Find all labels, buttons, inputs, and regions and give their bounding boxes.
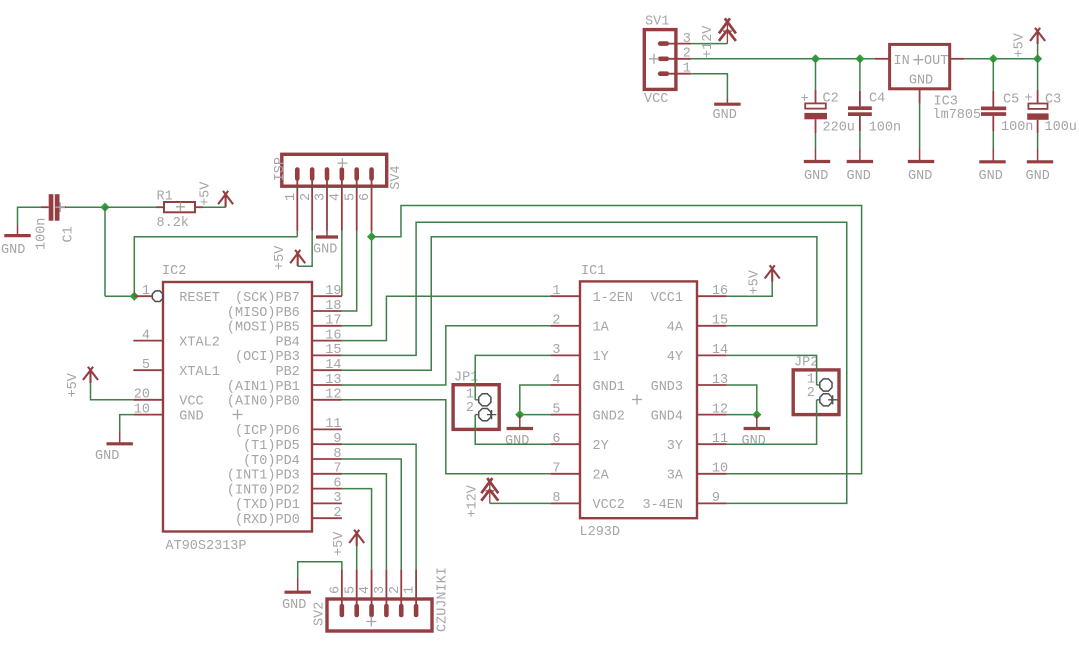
svg-text:JP2: JP2 xyxy=(794,356,818,371)
svg-text:4A: 4A xyxy=(667,321,684,336)
svg-text:3: 3 xyxy=(552,343,560,358)
wire +12V to IC1 VCC2 xyxy=(490,502,551,504)
svg-text:4: 4 xyxy=(552,373,560,388)
IC1 pin 9 3-4EN xyxy=(697,502,727,504)
svg-text:GND: GND xyxy=(1,243,25,258)
IC2 pin 16 PB4 xyxy=(312,340,342,342)
svg-text:(MOSI)PB5: (MOSI)PB5 xyxy=(227,321,300,336)
svg-text:9: 9 xyxy=(712,491,720,506)
svg-text:100n: 100n xyxy=(35,218,50,250)
wire IC1 GND3/GND4 junction xyxy=(727,385,757,415)
supply +5V (top right) xyxy=(1030,28,1045,44)
wire ISP.4 to IC2 SCK xyxy=(341,231,343,296)
svg-text:C1: C1 xyxy=(62,226,77,242)
connector SV4 ISP xyxy=(282,154,387,186)
IC2 pin 11 (ICP)PD6 xyxy=(312,428,342,430)
svg-text:SV1: SV1 xyxy=(645,15,669,30)
svg-text:15: 15 xyxy=(325,343,341,358)
IC U-IC2 AT90S2313P xyxy=(163,282,312,532)
svg-text:+: + xyxy=(1025,92,1033,107)
SV4 pin 3 stub xyxy=(326,174,328,231)
IC1 pin 6 2Y xyxy=(550,443,580,445)
wire SV1.3 to +12V xyxy=(691,43,728,45)
svg-text:6: 6 xyxy=(358,193,373,201)
svg-text:(INT0)PD2: (INT0)PD2 xyxy=(227,483,300,498)
svg-text:C4: C4 xyxy=(869,92,885,107)
svg-text:11: 11 xyxy=(325,417,341,432)
IC2 pin 13 (AIN1)PB1 xyxy=(312,384,342,386)
wire net PD5 to SV2.1 xyxy=(342,444,416,569)
svg-text:100n: 100n xyxy=(1001,120,1033,135)
IC2 pin 8 (T0)PD4 xyxy=(312,458,342,460)
svg-text:5: 5 xyxy=(142,358,150,373)
svg-text:C2: C2 xyxy=(823,92,839,107)
wire net PB0 to IC1 2A xyxy=(342,400,550,474)
supply +12V (IC1) xyxy=(481,478,498,493)
svg-text:17: 17 xyxy=(325,314,341,329)
svg-text:GND: GND xyxy=(713,108,737,123)
svg-text:IN: IN xyxy=(894,54,910,69)
IC2 pin 2 (RXD)PD0 xyxy=(312,517,342,519)
IC1 pin 3 1Y xyxy=(550,354,580,356)
node junction C4 rail xyxy=(855,54,864,63)
wire VCC pin20 to +5V xyxy=(91,383,134,400)
svg-text:3-4EN: 3-4EN xyxy=(642,498,683,513)
ground GND (ISP.3) xyxy=(326,231,328,237)
svg-text:RESET: RESET xyxy=(179,291,220,306)
svg-text:XTAL1: XTAL1 xyxy=(179,365,220,380)
wire net PB3 to IC1 3-4EN xyxy=(342,222,847,503)
wire IC1 GND1/GND2 junction xyxy=(520,385,551,415)
svg-text:GND: GND xyxy=(179,409,203,424)
node junction MOSI xyxy=(367,232,376,241)
svg-text:GND: GND xyxy=(909,74,933,89)
svg-text:GND: GND xyxy=(95,449,119,464)
svg-text:7: 7 xyxy=(333,462,341,477)
wire SV1.1 to GND xyxy=(691,74,728,99)
svg-text:4: 4 xyxy=(328,193,343,201)
IC1 pin 10 3A xyxy=(697,473,727,475)
svg-text:2: 2 xyxy=(807,386,815,401)
svg-text:1: 1 xyxy=(552,284,560,299)
svg-text:(MISO)PB6: (MISO)PB6 xyxy=(227,306,300,321)
svg-text:(SCK)PB7: (SCK)PB7 xyxy=(235,291,300,306)
wire net PD2 to SV2.4 xyxy=(342,489,372,570)
svg-text:GND2: GND2 xyxy=(593,409,625,424)
svg-text:1: 1 xyxy=(142,284,150,299)
SV2 pin 2 stub xyxy=(400,569,402,610)
IC2 pin 4 XTAL2 xyxy=(133,340,163,342)
svg-text:(T1)PD5: (T1)PD5 xyxy=(243,439,300,454)
svg-text:PB2: PB2 xyxy=(275,365,299,380)
svg-text:4: 4 xyxy=(142,328,150,343)
svg-text:12: 12 xyxy=(325,388,341,403)
JP1 pin 2 xyxy=(475,414,478,416)
IC2 pin 15 (OCI)PB3 xyxy=(312,354,342,356)
svg-text:AT90S2313P: AT90S2313P xyxy=(166,539,247,554)
IC1 pin 16 VCC1 xyxy=(697,295,727,297)
svg-text:2: 2 xyxy=(333,506,341,521)
ground GND (JP2 side) xyxy=(756,415,758,429)
svg-text:1A: 1A xyxy=(593,321,610,336)
IC1 pin 5 GND2 xyxy=(550,414,580,416)
svg-text:(T0)PD4: (T0)PD4 xyxy=(243,454,300,469)
svg-text:9: 9 xyxy=(333,432,341,447)
svg-text:2Y: 2Y xyxy=(593,439,609,454)
svg-text:4Y: 4Y xyxy=(667,350,683,365)
svg-text:1: 1 xyxy=(284,193,299,201)
IC1 pin 2 1A xyxy=(550,325,580,327)
svg-text:8.2k: 8.2k xyxy=(157,216,189,231)
svg-text:C5: C5 xyxy=(1003,93,1019,108)
wire RESET net to IC2 xyxy=(105,295,134,297)
IC1 pin 12 GND4 xyxy=(697,414,727,416)
SV4 pin 4 stub xyxy=(341,174,343,231)
wire IC1 VCC1 to +5V xyxy=(727,282,773,297)
svg-text:VCC1: VCC1 xyxy=(651,291,683,306)
IC1 pin 14 4Y xyxy=(697,354,727,356)
svg-text:+: + xyxy=(801,92,809,107)
capacitor C4 100n xyxy=(859,59,861,91)
svg-text:+5V: +5V xyxy=(199,181,214,206)
svg-text:18: 18 xyxy=(325,299,341,314)
IC2 pin 12 (AIN0)PB0 xyxy=(312,399,342,401)
svg-text:(AIN0)PB0: (AIN0)PB0 xyxy=(227,395,300,410)
capacitor C5 100n xyxy=(992,59,994,91)
IC2 pin 1 RESET bubble xyxy=(134,295,152,297)
JP1 pin 1 xyxy=(475,399,478,401)
IC2 pin 5 XTAL1 xyxy=(133,369,163,371)
svg-text:11: 11 xyxy=(712,432,728,447)
svg-text:2A: 2A xyxy=(593,469,610,484)
node junction RESET xyxy=(130,292,139,301)
svg-text:6: 6 xyxy=(552,432,560,447)
jumper JP1 xyxy=(453,385,499,430)
supply +12V (top) xyxy=(719,18,736,33)
IC2 pin 17 (MOSI)PB5 xyxy=(312,325,342,327)
svg-text:(OCI)PB3: (OCI)PB3 xyxy=(235,350,300,365)
SV4 pin 2 stub xyxy=(311,174,313,231)
ground GND (IC3) xyxy=(919,148,921,162)
wire IC3 GND down xyxy=(919,89,921,104)
svg-text:2: 2 xyxy=(388,586,403,594)
wire R1 to +5V xyxy=(203,206,226,208)
IC2 pin 18 (MISO)PB6 xyxy=(312,310,342,312)
connector SV1 xyxy=(644,30,676,90)
wire net PB2 to IC1 4A xyxy=(342,237,817,371)
SV4 pin 6 stub xyxy=(371,174,373,231)
node junction C1/R1/RESET xyxy=(100,203,109,212)
IC1 pin 4 GND1 xyxy=(550,384,580,386)
svg-text:lm7805: lm7805 xyxy=(933,108,982,123)
jumper JP2 xyxy=(793,370,839,415)
svg-text:C3: C3 xyxy=(1045,93,1061,108)
svg-text:(TXD)PD1: (TXD)PD1 xyxy=(235,498,300,513)
svg-text:PB4: PB4 xyxy=(275,335,299,350)
supply +5V (IC1) xyxy=(765,265,780,281)
svg-text:8: 8 xyxy=(333,447,341,462)
svg-text:GND: GND xyxy=(804,169,828,184)
svg-text:20: 20 xyxy=(134,388,150,403)
svg-text:14: 14 xyxy=(712,343,728,358)
wire JP1.2 to IC1 2Y xyxy=(475,415,550,445)
ground GND (SV2) xyxy=(297,579,299,593)
IC1 pin 11 3Y xyxy=(697,443,727,445)
capacitor C1 100n xyxy=(41,206,49,208)
svg-text:+5V: +5V xyxy=(273,245,288,270)
svg-text:R1: R1 xyxy=(157,190,173,205)
svg-text:GND: GND xyxy=(1026,169,1050,184)
svg-text:GND: GND xyxy=(505,434,529,449)
svg-text:CZUJNIKI: CZUJNIKI xyxy=(436,567,451,632)
svg-text:1Y: 1Y xyxy=(593,350,609,365)
svg-text:2: 2 xyxy=(466,401,474,416)
JP2 pin 1 xyxy=(817,384,820,386)
svg-text:GND4: GND4 xyxy=(651,409,683,424)
SV4 pin 1 stub xyxy=(296,174,298,231)
SV4 pin 5 stub xyxy=(356,174,358,231)
IC1 pin 7 2A xyxy=(550,473,580,475)
svg-text:VCC2: VCC2 xyxy=(593,498,625,513)
wire SV2.6 to GND xyxy=(298,562,342,579)
ground GND (C1) xyxy=(4,234,30,237)
svg-text:16: 16 xyxy=(712,284,728,299)
svg-text:+12V: +12V xyxy=(701,25,716,58)
wire net PB4 to IC1 1-2EN xyxy=(342,296,550,340)
svg-text:10: 10 xyxy=(134,402,150,417)
SV2 pin 4 stub xyxy=(371,569,373,610)
IC2 pin 20 VCC xyxy=(133,399,163,401)
svg-text:8: 8 xyxy=(552,491,560,506)
svg-text:GND: GND xyxy=(742,434,766,449)
wire ISP.1 to RESET net xyxy=(296,231,298,237)
IC2 pin 3 (TXD)PD1 xyxy=(312,502,342,504)
svg-text:1-2EN: 1-2EN xyxy=(593,291,634,306)
supply +5V (ISP) xyxy=(290,250,305,266)
JP2 pin 2 xyxy=(817,399,820,401)
wire ISP.5 to IC2 MISO xyxy=(342,231,357,311)
svg-text:2: 2 xyxy=(683,47,691,62)
wire SV2.5 to +5V xyxy=(356,546,358,569)
svg-text:3: 3 xyxy=(683,32,691,47)
svg-text:+5V: +5V xyxy=(332,531,347,556)
wire net PD3 to SV2.3 xyxy=(342,474,387,570)
IC U-IC1 L293D xyxy=(580,281,697,518)
svg-text:GND: GND xyxy=(979,169,1003,184)
regulator IC3 lm7805 xyxy=(875,58,890,60)
svg-text:12: 12 xyxy=(712,402,728,417)
svg-text:GND1: GND1 xyxy=(593,380,625,395)
svg-text:4: 4 xyxy=(358,586,373,594)
supply +5V (SV2) xyxy=(349,530,364,546)
svg-text:220u: 220u xyxy=(823,121,855,136)
SV2 pin 3 stub xyxy=(385,569,387,610)
svg-text:3: 3 xyxy=(314,193,329,201)
node junction C2 rail xyxy=(811,54,820,63)
IC2 pin 14 PB2 xyxy=(312,369,342,371)
wire net PB1 to IC1 1A xyxy=(342,326,550,385)
supply +5V (IC2 VCC) xyxy=(83,367,98,383)
svg-text:3: 3 xyxy=(333,491,341,506)
ground GND (SV1) xyxy=(726,99,728,105)
svg-text:GND: GND xyxy=(908,169,932,184)
svg-text:14: 14 xyxy=(325,358,341,373)
svg-text:15: 15 xyxy=(712,314,728,329)
IC1 pin 8 VCC2 xyxy=(550,502,580,504)
SV2 pin 1 stub xyxy=(415,569,417,610)
svg-text:GND: GND xyxy=(847,169,871,184)
svg-text:(ICP)PD6: (ICP)PD6 xyxy=(235,424,300,439)
node junction C5 rail xyxy=(989,54,998,63)
svg-text:3A: 3A xyxy=(667,469,684,484)
wire +5V riser xyxy=(1037,44,1039,59)
wire C1 to junction xyxy=(66,206,105,208)
svg-text:7: 7 xyxy=(552,462,560,477)
svg-text:VCC: VCC xyxy=(179,395,203,410)
svg-text:IC1: IC1 xyxy=(581,264,605,279)
wire JP1.1 to IC1 1Y xyxy=(475,355,550,399)
svg-text:2: 2 xyxy=(552,314,560,329)
wire net PD4 to SV2.2 xyxy=(342,459,401,569)
svg-text:3Y: 3Y xyxy=(667,439,683,454)
svg-text:100n: 100n xyxy=(869,121,901,136)
svg-text:13: 13 xyxy=(712,373,728,388)
wire IC1 4Y to JP2.1 xyxy=(727,355,817,385)
svg-text:+12V: +12V xyxy=(465,484,480,517)
ground GND (C2) xyxy=(815,148,817,162)
wire IC1 3Y to JP2.2 xyxy=(727,400,817,444)
node junction GND12 xyxy=(515,410,524,419)
IC1 pin 1 1-2EN xyxy=(550,295,580,297)
svg-text:(INT1)PD3: (INT1)PD3 xyxy=(227,469,300,484)
svg-text:VCC: VCC xyxy=(644,92,668,107)
svg-text:+5V: +5V xyxy=(748,269,763,294)
node junction GND34 xyxy=(752,410,761,419)
wire +12V rail SV1.2 to IC3 IN xyxy=(691,58,875,60)
svg-text:1: 1 xyxy=(683,61,691,76)
svg-text:6: 6 xyxy=(328,586,343,594)
svg-text:3: 3 xyxy=(373,586,388,594)
svg-text:SV2: SV2 xyxy=(313,602,328,626)
svg-text:5: 5 xyxy=(343,586,358,594)
svg-text:GND: GND xyxy=(313,243,337,258)
resistor R1 8.2k xyxy=(156,206,164,208)
ground GND (C3) xyxy=(1037,148,1039,162)
wire GND to C1 xyxy=(18,207,42,225)
wire +5V rail IC3 OUT to C3 xyxy=(965,58,1038,60)
svg-text:13: 13 xyxy=(325,373,341,388)
svg-text:100u: 100u xyxy=(1045,120,1077,135)
svg-text:5: 5 xyxy=(343,193,358,201)
supply +5V (R1) xyxy=(218,191,233,207)
svg-text:OUT: OUT xyxy=(924,54,948,69)
ground GND (IC2) xyxy=(119,431,121,444)
svg-text:GND3: GND3 xyxy=(651,380,683,395)
IC2 pin 7 (INT1)PD3 xyxy=(312,473,342,475)
wire ISP.2 to +5V xyxy=(298,231,312,266)
wire ISP.6 MOSI down xyxy=(371,231,373,326)
SV2 pin 5 stub xyxy=(356,569,358,610)
svg-text:+5V: +5V xyxy=(1013,32,1028,57)
svg-text:2: 2 xyxy=(299,193,314,201)
IC1 pin 13 GND3 xyxy=(697,384,727,386)
svg-text:IC2: IC2 xyxy=(162,264,186,279)
svg-text:6: 6 xyxy=(333,476,341,491)
wire RESET net down xyxy=(104,207,106,296)
ground GND (JP1 side) xyxy=(519,415,521,429)
IC1 pin 15 4A xyxy=(697,325,727,327)
svg-text:10: 10 xyxy=(712,462,728,477)
svg-text:(RXD)PD0: (RXD)PD0 xyxy=(235,513,300,528)
svg-text:5: 5 xyxy=(552,402,560,417)
svg-text:(AIN1)PB1: (AIN1)PB1 xyxy=(227,380,300,395)
IC2 pin 19 (SCK)PB7 xyxy=(312,295,342,297)
svg-text:SV4: SV4 xyxy=(389,165,404,189)
ground GND (C5) xyxy=(992,148,994,162)
IC2 pin 10 GND xyxy=(133,414,163,416)
wire junction to R1 xyxy=(105,206,156,208)
wire GND pin10 down xyxy=(120,415,134,431)
svg-text:GND: GND xyxy=(282,598,306,613)
svg-text:ISP: ISP xyxy=(273,157,288,181)
svg-text:19: 19 xyxy=(325,284,341,299)
capacitor C2 220u xyxy=(815,59,817,90)
svg-text:16: 16 xyxy=(325,328,341,343)
IC2 pin 9 (T1)PD5 xyxy=(312,443,342,445)
svg-text:1: 1 xyxy=(403,586,418,594)
svg-text:XTAL2: XTAL2 xyxy=(179,335,220,350)
connector SV2 CZUJNIKI xyxy=(327,599,432,631)
svg-text:L293D: L293D xyxy=(580,525,621,540)
wire RESET to ISP riser xyxy=(134,237,297,297)
ground GND (C4) xyxy=(859,148,861,162)
IC2 pin 6 (INT0)PD2 xyxy=(312,488,342,490)
node junction C3 rail xyxy=(1033,54,1042,63)
svg-text:+5V: +5V xyxy=(66,372,81,397)
wire MOSI to IC1 3A xyxy=(372,206,862,474)
SV2 pin 6 stub xyxy=(341,569,343,610)
capacitor C3 100u xyxy=(1037,59,1039,90)
